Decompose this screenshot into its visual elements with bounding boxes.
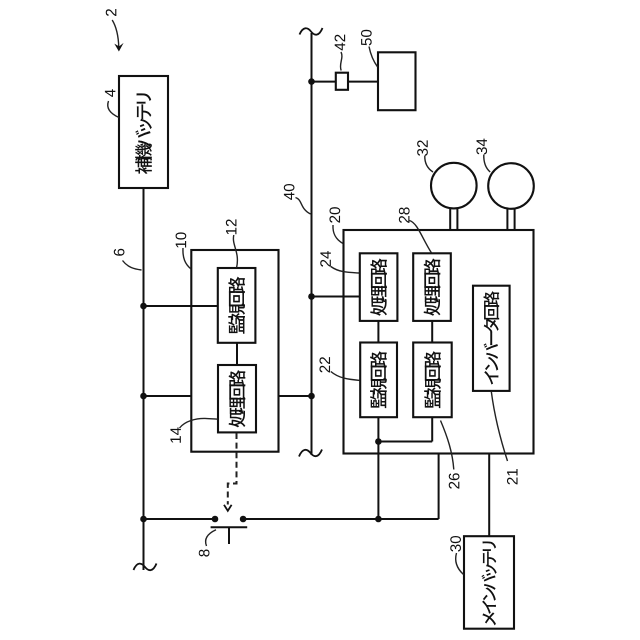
ref numeral 50 (361, 30, 372, 46)
monitoring circuit box 12 監視回路 (218, 268, 256, 343)
wire break tilde (bottom of line 40) (299, 450, 322, 457)
inverter circuit box 21 インバータ回路 (473, 286, 510, 391)
label 監視回路 (22) (370, 351, 387, 408)
auxiliary battery box 4 補機バッテリ (119, 76, 168, 188)
ref numeral 30 (450, 536, 461, 552)
wire: wire6 to box14 (144, 395, 192, 397)
leader 12 (233, 235, 237, 268)
arrowhead (114, 43, 123, 52)
ref numeral 14 (170, 427, 180, 442)
junction dot line40 y296.5 (308, 293, 315, 300)
ref numeral 8 (199, 549, 210, 556)
ref numeral 20 (329, 207, 340, 223)
junction dot line40 y396 (308, 393, 315, 400)
switch contact dot right (240, 516, 247, 523)
wire: box26 down to internal junction (431, 417, 433, 441)
leader 50 (369, 47, 378, 67)
switch 8 contact bar (211, 526, 248, 528)
wire: bus up into box20 (438, 454, 440, 520)
wire: box20 to main battery 30 (488, 454, 490, 537)
label インバータ回路 (21) (483, 291, 499, 384)
label 処理回路 (24) (370, 258, 387, 315)
main battery box 30 メインバッテリ (464, 536, 514, 629)
numeral 2 (106, 9, 117, 16)
junction dot on wire 6 at y306 (140, 303, 147, 310)
label 監視回路 (12) (228, 277, 245, 334)
leader 24 (331, 267, 360, 274)
leader 8 (206, 530, 216, 546)
ref numeral 4 (105, 89, 115, 97)
ref numeral 34 (476, 139, 487, 155)
motor 34 stem lines (506, 208, 508, 230)
connector box 42 (336, 73, 348, 90)
motor ECU box 20 (344, 230, 534, 454)
leader 28 (410, 221, 432, 253)
ref numeral 26 (449, 473, 460, 488)
label メインバッテリ (482, 541, 497, 625)
wire break tilde (bottom of wire 6) (134, 564, 157, 571)
label 処理回路 (14) (229, 370, 246, 427)
junction dot wire6/bus (140, 516, 147, 523)
connector box24-box22 (377, 321, 379, 343)
communication line 40 (vertical bus) (311, 33, 313, 455)
processing circuit box 28 処理回路 (413, 253, 451, 321)
leader 40 (296, 198, 311, 215)
processing circuit box 14 処理回路 (218, 365, 256, 432)
ref numeral 28 (399, 207, 410, 222)
external device box 50 (378, 52, 416, 110)
wire break tilde (top of line 40) (300, 28, 323, 35)
ref numeral 32 (417, 140, 428, 156)
ECU box 10 (191, 250, 278, 452)
monitoring circuit box 26 監視回路 (413, 343, 452, 418)
motor 34 (circle) (488, 163, 534, 209)
wire: box10 to line 40 (279, 395, 312, 397)
wire 6 (auxiliary power line, vertical) (143, 188, 145, 570)
label 処理回路 (28) (424, 258, 441, 315)
wire: junction down to ground bus (377, 442, 379, 520)
wire: internal junction horizontal (378, 441, 432, 443)
leader 22 (331, 372, 360, 381)
monitoring circuit box 22 監視回路 (360, 343, 397, 418)
switch 8 actuator stem (228, 527, 230, 544)
arrow shaft (112, 20, 119, 48)
wire: wire6 to box12 (144, 305, 218, 307)
leader 10 (183, 248, 191, 269)
ref numeral 40 (284, 184, 295, 200)
leader 20 (333, 225, 343, 244)
leader 30 (456, 553, 464, 575)
ref numeral 24 (320, 251, 331, 267)
processing circuit box 24 処理回路 (360, 253, 398, 321)
leader 21 (491, 392, 507, 462)
ref numeral 22 (319, 357, 330, 372)
ref numeral 10 (176, 232, 187, 247)
leader 34 (484, 155, 490, 173)
dashed control line arrowhead (224, 505, 232, 511)
wire: connector 42 to device 50 (348, 81, 378, 83)
motor 32 (circle) (431, 163, 477, 209)
bottom ground bus wire left segment (144, 518, 216, 520)
junction dot on wire 6 at y396 (140, 393, 147, 400)
label 補機バッテリ (135, 93, 152, 174)
wire: box22 down to internal junction (377, 417, 379, 441)
junction dot inside box20 (375, 438, 382, 445)
motor 32 stem lines (449, 208, 451, 231)
wire: line40 to connector 42 (312, 81, 336, 83)
leader 6 (123, 261, 142, 271)
leader 42 (340, 52, 341, 71)
leader 4 (108, 101, 119, 118)
leader 32 (425, 156, 433, 173)
wire: line40 into box24 (312, 296, 360, 298)
ref numeral 12 (226, 219, 237, 234)
label 監視回路 (26) (424, 351, 441, 408)
ref numeral 42 (335, 35, 346, 51)
leader 26 (441, 421, 454, 470)
junction dot line40 y81.6 (308, 78, 315, 85)
dashed control line from box14 to switch 8 (228, 433, 237, 505)
ref numeral 21 (507, 469, 518, 484)
ref numeral 6 (114, 249, 125, 256)
connector box28-box26 (431, 321, 433, 343)
connector box12-box14 (236, 343, 238, 365)
switch contact dot left (212, 516, 219, 523)
junction dot bus x378 (375, 516, 382, 523)
leader 14 (180, 418, 218, 428)
bottom ground bus wire right segment (243, 518, 439, 520)
